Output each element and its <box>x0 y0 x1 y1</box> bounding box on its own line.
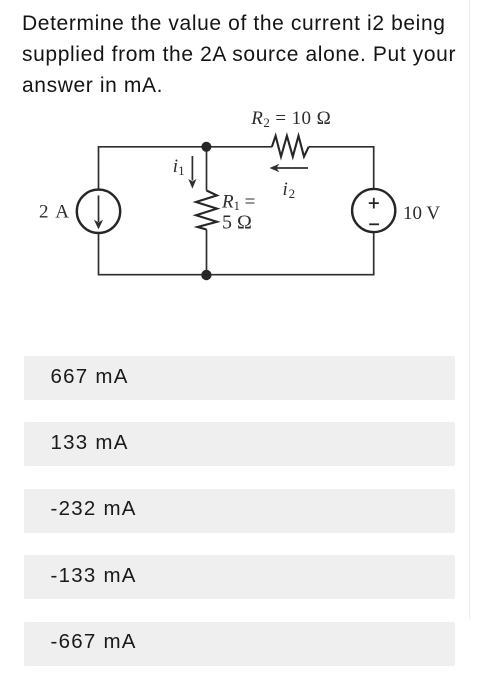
svg-text:2 A: 2 A <box>39 202 70 223</box>
svg-text:i1: i1 <box>173 156 185 178</box>
svg-text:5 Ω: 5 Ω <box>222 212 252 234</box>
svg-text:10 V: 10 V <box>403 203 440 224</box>
svg-text:R1 =: R1 = <box>221 191 255 213</box>
svg-text:R2 = 10 Ω: R2 = 10 Ω <box>250 108 331 130</box>
svg-text:i2: i2 <box>283 179 296 201</box>
